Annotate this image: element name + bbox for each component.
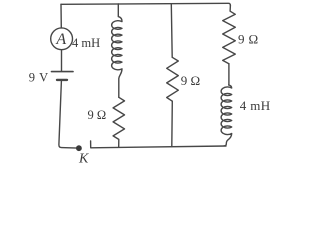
inductor L1 (4 mH) coil: [112, 4, 122, 97]
svg-text:4 mH: 4 mH: [72, 36, 100, 50]
svg-text:9 Ω: 9 Ω: [181, 73, 200, 88]
op-amp ammeter A1 circle: [51, 28, 73, 50]
wire ammeter to battery: [61, 50, 63, 72]
wire top rail: [61, 3, 230, 5]
wire middle branch bottom: [171, 101, 174, 146]
resistor R2 (9 ohm, middle branch): [167, 57, 179, 101]
svg-text:A: A: [55, 31, 66, 48]
svg-text:4 mH: 4 mH: [240, 98, 271, 113]
resistor R3 (9 ohm, right branch): [223, 5, 236, 63]
svg-text:9 Ω: 9 Ω: [238, 32, 259, 47]
svg-text:9 Ω: 9 Ω: [88, 108, 107, 122]
resistor R1 (9 ohm, left branch): [113, 97, 124, 147]
wire middle branch top: [170, 4, 173, 58]
node K junction dot: [76, 145, 82, 151]
battery B1 short plate: [57, 79, 67, 81]
wire bottom rail with left hook: [91, 141, 226, 148]
svg-text:9 V: 9 V: [29, 71, 49, 85]
wire right branch middle: [228, 64, 230, 85]
wire battery to bottom-left corner and to node K: [59, 81, 78, 148]
inductor L2 (4 mH) coil: [221, 85, 232, 146]
svg-text:K: K: [78, 152, 89, 164]
battery B1 long plate: [52, 71, 74, 73]
wire left branch top (ammeter to top rail): [60, 4, 62, 28]
